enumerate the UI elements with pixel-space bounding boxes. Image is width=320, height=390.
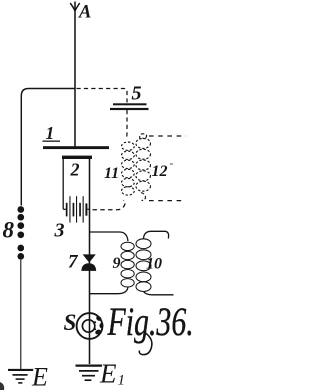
dashed right vertical remnant — [170, 163, 173, 165]
main vertical conductor — [89, 158, 91, 364]
wire: below beads to ground E — [20, 260, 22, 369]
svg-text:A: A — [78, 3, 91, 23]
svg-text:11: 11 — [104, 165, 119, 182]
svg-text:E: E — [31, 363, 48, 390]
svg-text:8: 8 — [3, 218, 15, 243]
dashed branch from antenna node to condenser 5 — [77, 89, 128, 104]
svg-text:5: 5 — [132, 83, 142, 105]
svg-text:9: 9 — [113, 255, 121, 272]
svg-text:12: 12 — [152, 163, 168, 180]
svg-text:7: 7 — [68, 252, 79, 273]
condenser plate 2 (box) — [62, 156, 92, 159]
svg-text:10: 10 — [146, 256, 162, 273]
caption Fig.36. — [107, 299, 194, 344]
wire: left branch to earth E — [21, 89, 75, 206]
svg-text:S: S — [64, 310, 77, 335]
antenna arrow — [70, 3, 80, 11]
dashed: condenser 5 down to coil 11 — [125, 110, 128, 139]
caption g-swash — [139, 333, 152, 355]
svg-text:1: 1 — [118, 373, 126, 389]
dashed: coil 12 bottom to right stub — [141, 193, 146, 201]
detector 7 — [83, 254, 96, 262]
ground E — [8, 370, 33, 383]
wire: antenna lead down to plate 1 — [74, 2, 76, 147]
svg-text:2: 2 — [70, 160, 80, 180]
coil 11 (dashed winding) — [122, 142, 135, 150]
corner speck — [0, 382, 4, 390]
transformer primary 9 — [90, 232, 129, 241]
ground E1 — [76, 366, 103, 381]
coil 12 (dashed winding) — [136, 138, 151, 148]
svg-text:3: 3 — [54, 220, 65, 242]
battery 3 — [63, 208, 66, 210]
plate 1 — [43, 146, 109, 149]
svg-text:E: E — [99, 359, 117, 389]
dashed: battery node to coil 11 bottom — [93, 201, 126, 210]
coherer 8 (bead chain) — [17, 206, 24, 260]
svg-text:1: 1 — [46, 123, 55, 143]
transformer secondary 10 — [144, 231, 169, 238]
condenser 5 — [113, 103, 147, 105]
detector S — [77, 313, 103, 339]
dashed: coil 12 top to right stub — [140, 134, 147, 140]
